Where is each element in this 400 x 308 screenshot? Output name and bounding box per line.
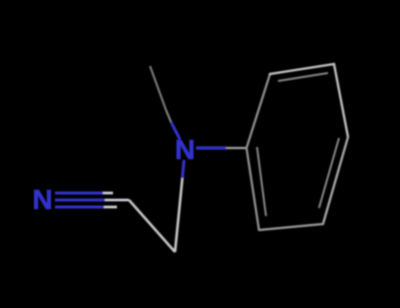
svg-text:N: N [32,184,52,215]
svg-text:N: N [175,134,195,165]
